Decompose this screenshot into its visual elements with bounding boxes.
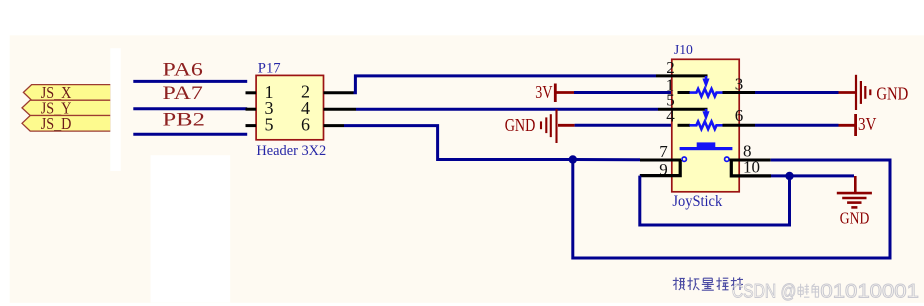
svg-text:4: 4 <box>666 107 675 126</box>
stub GND left <box>558 124 575 127</box>
potentiometer 1 right lead <box>723 91 756 94</box>
wire J10.10 to earth <box>771 174 854 177</box>
port flag JS_Y <box>22 98 111 117</box>
svg-text:GND: GND <box>505 115 536 135</box>
wire PB2 <box>133 133 247 136</box>
svg-text:3: 3 <box>735 75 744 94</box>
pushbutton left contact <box>682 157 686 161</box>
wire GND to J10.4 <box>575 124 676 127</box>
svg-text:PA6: PA6 <box>163 59 203 80</box>
wire J10.9 to node <box>640 176 790 225</box>
svg-text:2: 2 <box>666 58 675 77</box>
ground symbol GND right <box>856 75 870 110</box>
wire J10.6 to 3V right <box>755 124 839 127</box>
P17 pin 2 stub <box>324 91 354 94</box>
power symbol 3V left bar <box>554 84 557 103</box>
svg-text:GND: GND <box>840 208 870 227</box>
port flag JS_D <box>22 114 111 133</box>
potentiometer 1 zigzag <box>690 89 723 97</box>
P17 pin 1 stub <box>246 91 257 94</box>
svg-text:PB2: PB2 <box>163 109 205 130</box>
svg-text:Header 3X2: Header 3X2 <box>256 143 326 159</box>
P17 pin 6 stub <box>324 124 345 127</box>
stub 3V left <box>557 91 575 94</box>
J10 pin 8 stub <box>730 159 771 162</box>
earth ground symbol bottom right <box>837 176 872 207</box>
wire PA6 <box>133 80 247 83</box>
P17 pin 3 stub <box>246 108 257 111</box>
watermark hanzi 触角 <box>798 284 819 297</box>
J10 pin 2 trace (wiper pot1) <box>656 74 708 77</box>
svg-text:01010001: 01010001 <box>820 280 919 302</box>
stub 3V right <box>839 124 856 127</box>
potentiometer 1 wiper arrow <box>702 76 709 88</box>
pushbutton bar <box>680 147 733 150</box>
wire P17.6 to button node <box>344 126 640 160</box>
potentiometer 2 wiper arrow <box>702 109 709 121</box>
port flag JS_X <box>23 83 111 102</box>
white strip over flag right ends <box>110 48 121 171</box>
pushbutton actuator <box>697 142 716 147</box>
svg-text:3V: 3V <box>858 114 876 134</box>
wire 3V to J10.1 <box>574 91 676 94</box>
wire P17.4 to J10.5 <box>356 108 658 111</box>
J10 pin 7 stub <box>640 159 681 162</box>
svg-text:6: 6 <box>301 114 310 134</box>
J10 pin 5 trace (wiper pot2) <box>658 108 708 111</box>
potentiometer 2 zigzag <box>690 122 723 130</box>
stub GND right <box>839 91 856 94</box>
wire PA7 <box>133 107 247 110</box>
power symbol 3V right bar <box>854 114 857 136</box>
svg-text:6: 6 <box>735 106 744 125</box>
svg-text:PA7: PA7 <box>163 83 203 104</box>
white erased rectangle lower left <box>151 155 231 302</box>
connector J10 body <box>672 59 739 192</box>
J10 pin 9 stub <box>640 160 680 176</box>
svg-text:3V: 3V <box>535 82 552 102</box>
svg-text:CSDN @: CSDN @ <box>732 280 797 302</box>
svg-text:5: 5 <box>265 114 274 134</box>
J10 pin 10 stub <box>731 160 771 176</box>
P17 pin 4 stub <box>324 108 357 111</box>
ground symbol GND left <box>541 109 557 143</box>
junction node at button feed <box>569 155 577 163</box>
connector P17 body <box>256 75 323 139</box>
wire P17.2 to J10.2 <box>354 76 657 93</box>
pushbutton right contact <box>725 157 729 161</box>
potentiometer 2 right lead <box>723 124 756 127</box>
junction node at pin 10 <box>785 172 793 180</box>
P17 pin 5 stub <box>246 124 257 127</box>
svg-text:P17: P17 <box>258 60 281 76</box>
svg-text:JoyStick: JoyStick <box>672 193 722 210</box>
svg-text:GND: GND <box>876 83 908 103</box>
wire J10.8 loop <box>573 160 890 259</box>
svg-text:JS_D: JS_D <box>41 114 72 133</box>
svg-text:7: 7 <box>659 142 668 161</box>
wire J10.3 to GND right <box>755 91 839 94</box>
potentiometer 1 left lead <box>678 91 691 94</box>
potentiometer 2 left lead <box>678 124 691 127</box>
svg-text:J10: J10 <box>674 43 693 58</box>
caption analog joystick (hanzi 模拟量摇杆) <box>673 277 743 290</box>
